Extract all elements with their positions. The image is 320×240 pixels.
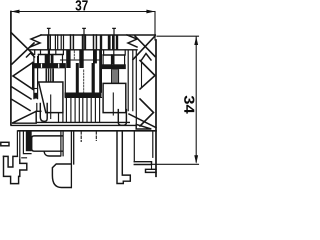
comb slot lines b [55, 35, 57, 50]
arrow down 34 [194, 155, 198, 164]
left clamp walls [34, 57, 38, 99]
extension line right of 37 [154, 12, 156, 41]
comb rib above center [83, 28, 86, 49]
center dark bar B [79, 50, 83, 68]
top-left counter diagonal [12, 43, 34, 64]
center hidden dashed a [73, 51, 75, 60]
center funnel bottom line [66, 97, 102, 99]
comb dark bar j [116, 35, 118, 50]
center dark bar D [76, 63, 79, 98]
pedestal left foot [52, 164, 71, 188]
comb dark bar g [100, 35, 102, 50]
left screw head top [38, 54, 62, 56]
body left edge [10, 12, 12, 125]
center thin channel verticals [66, 98, 99, 122]
left lower chevron line [12, 87, 31, 99]
center wall line [64, 68, 66, 97]
left clamp lower lines [59, 113, 63, 123]
arrow up 34 [194, 36, 198, 45]
busbar top line [37, 121, 130, 123]
right screw head top [103, 54, 125, 56]
left clamp wall rung [34, 88, 38, 90]
wedge top extension [36, 110, 41, 112]
right screw slot [111, 54, 114, 64]
comb slot lines c [61, 35, 63, 50]
channel underside curve [44, 152, 60, 156]
rail edge upper bar right [134, 162, 151, 165]
comb right zigzag corner [127, 35, 137, 47]
top-left chamfer diagonal [12, 33, 34, 55]
extension line top right of 34 [157, 35, 199, 37]
comb dark bar h [108, 35, 111, 50]
dark wall left of channel [26, 131, 32, 151]
claw stem second pair [22, 131, 31, 158]
left screw head ticks [35, 50, 64, 55]
left washer dark band [32, 63, 65, 68]
left wire line [50, 95, 52, 119]
left clamp wall dark fill [34, 93, 37, 99]
center hidden dashed b [83, 70, 85, 92]
center cell bottom line [61, 59, 100, 61]
dashed hidden line b [95, 132, 97, 141]
comb dark bar e [83, 35, 86, 50]
left busbar wedge [12, 111, 36, 123]
dashed hidden line a [80, 132, 82, 142]
right screw shaft hatched [111, 69, 119, 83]
left claw top with slot [4, 156, 18, 167]
claw stem verticals [17, 131, 19, 160]
arrow right 37 [146, 10, 155, 14]
center funnel dark band [65, 93, 102, 98]
comb dark bar i [112, 35, 115, 50]
right wall x136 [135, 51, 137, 124]
comb bottom edge [30, 49, 137, 51]
right small triangle [136, 124, 151, 129]
top-right V bump [142, 54, 152, 61]
right clamp box [103, 83, 126, 112]
right column vertical a [133, 131, 135, 162]
right chevron upper [140, 61, 155, 90]
comb rib above left [48, 28, 51, 49]
right chevron chord [141, 62, 143, 87]
dimension label 34 (rotated) [184, 96, 194, 114]
right washer dark band [101, 64, 126, 69]
right wedge diagonal [129, 114, 156, 128]
busbar bottom line [11, 124, 136, 126]
center dark bar A [66, 50, 70, 68]
left screw slot [45, 54, 50, 64]
lower body top edge [19, 130, 157, 132]
body right edge [155, 40, 157, 176]
center dark bar G [99, 50, 102, 92]
left claw body [4, 156, 27, 183]
comb slot lines a [48, 35, 51, 50]
dimension line 37 [12, 11, 154, 13]
top-right chamfer X diagonal a [135, 36, 155, 57]
left clamp bump U [40, 104, 47, 122]
dimension line 34 [195, 37, 197, 162]
left clamp box [39, 82, 63, 113]
right clamp walls [128, 51, 133, 111]
comb dark bar f [94, 35, 97, 50]
top-right chamfer X diagonal b [133, 36, 155, 60]
right column vertical b [152, 131, 154, 158]
comb rib above right [113, 28, 116, 49]
right screw head cap edges [103, 55, 125, 64]
dimension label 37 [75, 0, 87, 10]
left funnel pentagon [13, 63, 33, 90]
comb left zigzag corner [30, 35, 41, 47]
comb dark bar d [71, 35, 74, 50]
center dark bar E [92, 63, 95, 98]
rail edge lower bar right [146, 169, 157, 172]
wall A thick [61, 131, 63, 156]
pedestal right wall and foot hook [117, 131, 130, 184]
left screw shaft hatched [46, 68, 55, 82]
rail stub left [1, 142, 9, 146]
comb top edge [41, 34, 155, 36]
top-left V notch [27, 53, 35, 57]
center dark bar C [93, 50, 97, 63]
white channel rounded [32, 136, 62, 151]
right chevron lower [140, 99, 154, 126]
rail fold connector [151, 165, 153, 170]
right clamp bottom U [118, 110, 126, 126]
extension line bottom right of 34 [152, 163, 199, 165]
left screw head cap edges [38, 55, 62, 64]
wedge upper vertical [36, 104, 38, 112]
left lower chevron line 2 [12, 100, 30, 111]
right wire line [112, 93, 114, 115]
right screw head ticks [104, 50, 126, 55]
wall B pedestal left [71, 131, 73, 188]
arrow left 37 [11, 10, 20, 14]
